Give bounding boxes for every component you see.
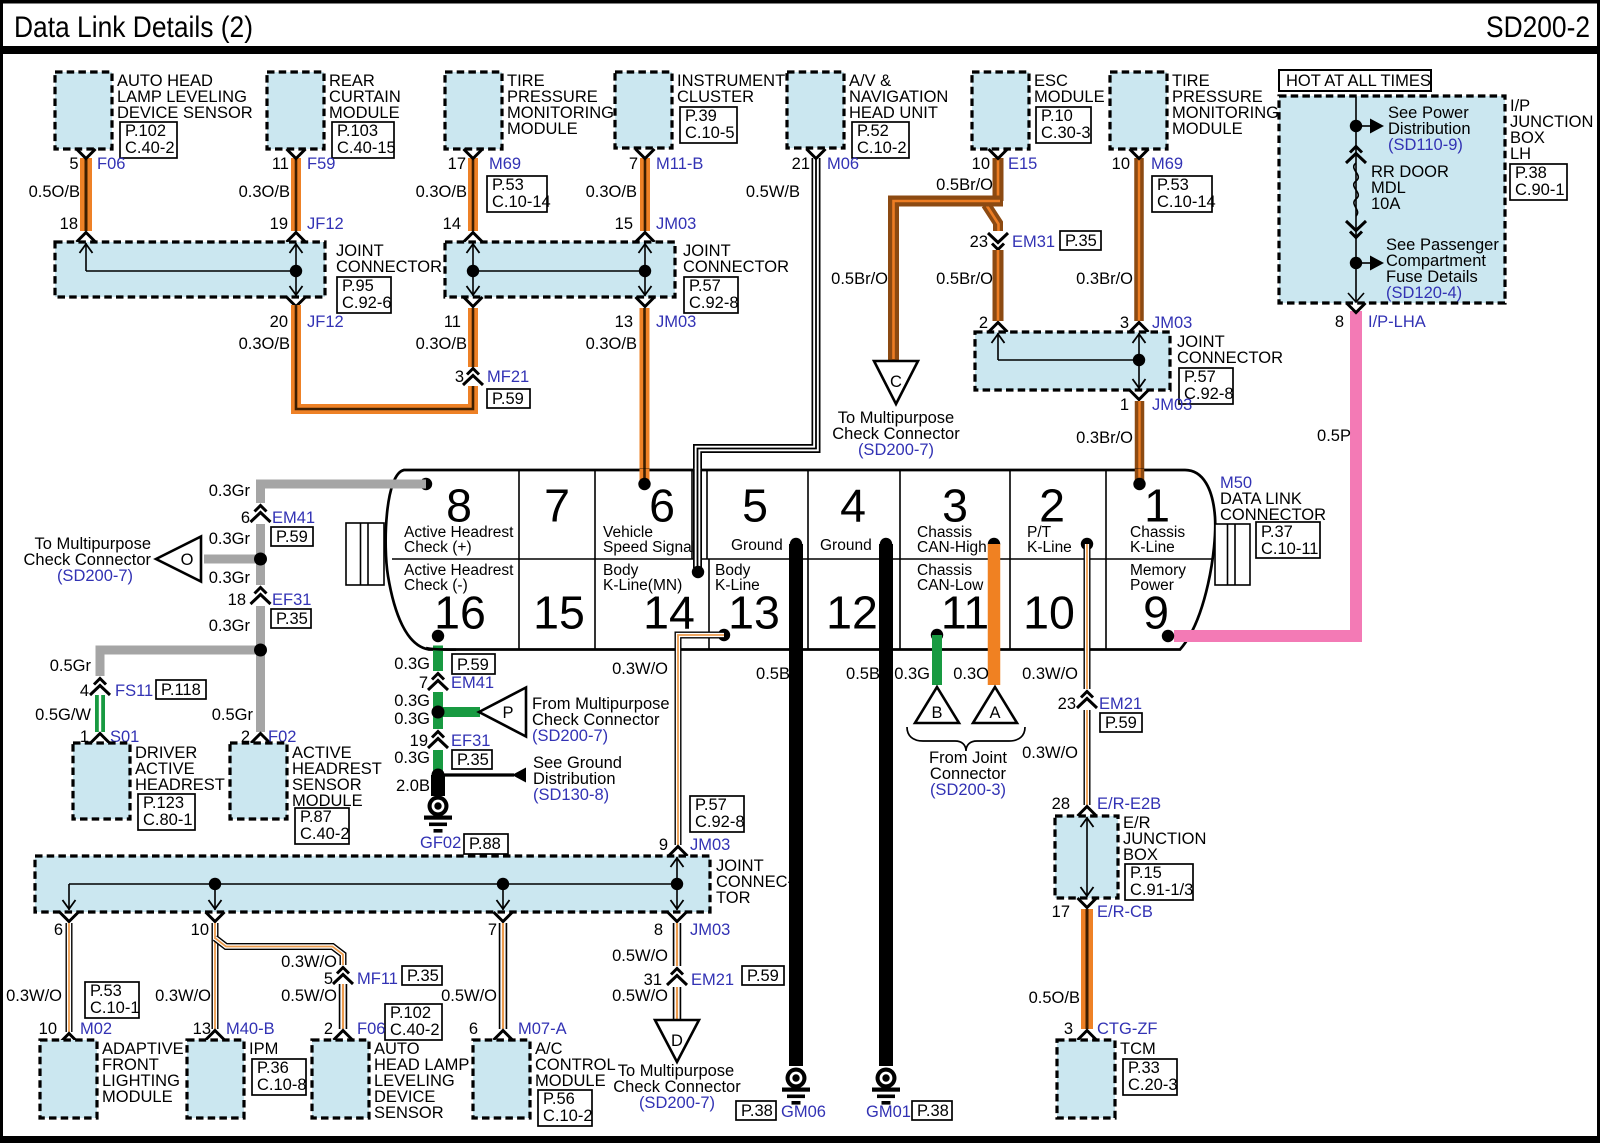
svg-text:0.3G: 0.3G (394, 655, 430, 673)
svg-text:HEADREST: HEADREST (135, 776, 225, 794)
svg-text:0.5Gr: 0.5Gr (212, 706, 254, 724)
svg-text:EM31: EM31 (1012, 233, 1055, 251)
wire 0.5O/B from F06 pin 5 to JF12 pin 18 (29, 149, 126, 242)
inline connector MF11 pin 5 (P.35) (324, 965, 442, 988)
svg-text:9: 9 (659, 836, 668, 854)
svg-text:I/P-LHA: I/P-LHA (1368, 313, 1426, 331)
DLC pin 15 cell (533, 587, 585, 639)
module: tire pressure monitoring module 2 (1110, 72, 1279, 149)
svg-text:7: 7 (544, 480, 570, 532)
svg-text:Ground: Ground (820, 537, 872, 554)
svg-text:C.80-1: C.80-1 (143, 811, 193, 829)
svg-text:EM21: EM21 (1099, 695, 1142, 713)
svg-text:P.102: P.102 (390, 1004, 431, 1022)
svg-text:13: 13 (615, 313, 633, 331)
svg-text:A: A (989, 704, 1000, 722)
svg-text:2: 2 (324, 1020, 333, 1038)
see ground distribution reference arrow (432, 754, 622, 804)
svg-text:0.5Gr: 0.5Gr (50, 657, 92, 675)
svg-text:F59: F59 (307, 155, 335, 173)
hot at all times header (1279, 70, 1431, 91)
inline connector EM21 pin 31 (P.59) (644, 966, 784, 989)
wire 0.3O/B from JF12 pin 20 via corner to MF21 pin 3 (239, 297, 473, 409)
wire 0.3W/O branch to MF11 pin 5 (215, 938, 343, 971)
svg-text:0.3W/O: 0.3W/O (1022, 744, 1078, 762)
svg-text:17: 17 (448, 155, 466, 173)
svg-text:M69: M69 (1151, 155, 1183, 173)
svg-text:5: 5 (742, 480, 768, 532)
wire 0.3W/O from DLC pin 13 to JM03 pin 9 (612, 635, 744, 856)
wire 0.5W/O from JM03 pin 8 to triangle D (612, 912, 730, 1019)
I/P junction box LH (1279, 96, 1593, 303)
svg-text:MODULE: MODULE (1034, 88, 1105, 106)
svg-text:P.95: P.95 (342, 277, 374, 295)
svg-text:12: 12 (826, 587, 878, 639)
svg-text:19: 19 (410, 732, 428, 750)
svg-text:(SD200-7): (SD200-7) (639, 1094, 715, 1112)
svg-text:SD200-2: SD200-2 (1486, 11, 1590, 44)
wire 0.3O from DLC pin 3 to triangle A (953, 544, 994, 685)
svg-text:M40-B: M40-B (226, 1020, 275, 1038)
inline connector MF21 pin 3 (P.59) (455, 366, 530, 408)
joint connector JM03 (P.57 C.92-8) upper (445, 242, 789, 313)
svg-text:0.5W/O: 0.5W/O (612, 987, 668, 1005)
page frame left border (0, 0, 3, 1143)
svg-text:P.123: P.123 (143, 794, 184, 812)
wire 0.3Br/O from JM03 pin 1 to DLC pin 1 (1076, 390, 1192, 482)
svg-text:0.5W/O: 0.5W/O (441, 987, 497, 1005)
svg-text:0.3G: 0.3G (394, 749, 430, 767)
svg-text:JM03: JM03 (690, 836, 730, 854)
svg-text:M02: M02 (80, 1020, 112, 1038)
svg-text:FS11: FS11 (115, 682, 153, 700)
E/R junction box exit pin 17 E/R-CB (1052, 898, 1153, 921)
DLC pin 12 cell (826, 587, 878, 639)
svg-text:0.3O/B: 0.3O/B (239, 335, 290, 353)
M50 data link connector label (1220, 474, 1326, 558)
svg-text:C.10-5: C.10-5 (685, 124, 735, 142)
svg-text:14: 14 (643, 587, 695, 639)
svg-text:P.88: P.88 (469, 835, 501, 853)
svg-text:20: 20 (270, 313, 288, 331)
svg-text:M11-B: M11-B (656, 155, 703, 173)
svg-text:(SD200-7): (SD200-7) (57, 567, 133, 585)
wire 0.3W/O from JM03 pin 10 to M40-B pin 13 with branch (155, 912, 275, 1040)
svg-text:C: C (890, 373, 902, 391)
svg-text:0.3Gr: 0.3Gr (209, 617, 251, 635)
module: adaptive front lighting module (40, 1040, 184, 1118)
svg-text:18: 18 (228, 591, 246, 609)
svg-text:0.5O/B: 0.5O/B (1029, 989, 1080, 1007)
svg-text:14: 14 (443, 215, 461, 233)
wire 0.5P from I/P-LHA pin 8 to DLC pin 9 (1176, 303, 1426, 636)
title divider rule (0, 46, 1600, 54)
svg-text:Ground: Ground (731, 537, 783, 554)
inline connector EF31 pin 19 (394, 729, 492, 769)
svg-text:JM03: JM03 (1152, 314, 1192, 332)
wire 0.3O/B from F59 pin 11 to JF12 pin 19 (239, 149, 344, 242)
svg-text:P.56: P.56 (543, 1090, 575, 1108)
off-page triangle B from joint connector (915, 687, 959, 723)
svg-text:C.40-2: C.40-2 (125, 139, 175, 157)
off-page triangle P from multipurpose check connector (394, 688, 669, 746)
svg-text:P.59: P.59 (747, 967, 779, 985)
module: rear curtain module (267, 72, 401, 158)
svg-text:0.3G: 0.3G (894, 665, 930, 683)
svg-text:M06: M06 (827, 155, 859, 173)
data link connector M50 body (386, 470, 1216, 650)
svg-text:CAN-Low: CAN-Low (917, 577, 984, 594)
svg-text:Data Link Details (2): Data Link Details (2) (14, 11, 253, 44)
svg-text:EF31: EF31 (451, 732, 490, 750)
DLC pin 3 cell (917, 480, 1000, 557)
wire 0.3O/B from M69 pin 17 to JM03 pin 14 (416, 149, 551, 242)
svg-text:0.5P: 0.5P (1317, 427, 1351, 445)
page frame right border (1597, 0, 1600, 1143)
DLC pin 7 cell (544, 480, 570, 532)
svg-text:EM21: EM21 (691, 971, 734, 989)
svg-text:JM03: JM03 (656, 215, 696, 233)
svg-text:CONNECTOR: CONNECTOR (336, 258, 442, 276)
svg-text:10A: 10A (1371, 195, 1400, 213)
svg-text:10: 10 (39, 1020, 57, 1038)
svg-text:P.57: P.57 (695, 796, 727, 814)
svg-text:CLUSTER: CLUSTER (677, 88, 754, 106)
module: auto head lamp leveling device sensor (55, 72, 253, 158)
svg-text:D: D (671, 1032, 683, 1050)
svg-text:0.5Br/O: 0.5Br/O (831, 270, 888, 288)
svg-text:0.3G: 0.3G (394, 710, 430, 728)
svg-text:P.57: P.57 (689, 277, 721, 295)
svg-text:JM03: JM03 (690, 921, 730, 939)
svg-text:DEVICE SENSOR: DEVICE SENSOR (117, 104, 253, 122)
svg-text:11: 11 (444, 313, 461, 331)
svg-text:3: 3 (1064, 1020, 1073, 1038)
svg-text:Power: Power (1130, 577, 1174, 594)
junction dot + see passenger compartment fuse details arrow (1350, 236, 1500, 302)
module: A/V & navigation head unit (787, 72, 948, 158)
off-page triangle D to multipurpose check connector (613, 1020, 741, 1112)
wire 0.5Gr from junction to F02 pin 2 (212, 706, 297, 746)
svg-text:0.3O/B: 0.3O/B (586, 335, 637, 353)
svg-text:7: 7 (629, 155, 638, 173)
wire 0.3Br/O from M69 pin 10 to JM03 pin 3 (1076, 149, 1216, 332)
svg-text:P.103: P.103 (337, 122, 378, 140)
svg-text:7: 7 (419, 674, 428, 692)
svg-text:C.92-8: C.92-8 (689, 294, 739, 312)
off-page triangle C to multipurpose check connector (832, 361, 960, 459)
svg-text:P.38: P.38 (1515, 164, 1547, 182)
wire 0.5B from DLC pin 5 to ground GM06 (756, 544, 796, 1066)
svg-text:0.5Br/O: 0.5Br/O (936, 270, 993, 288)
svg-text:2.0B: 2.0B (396, 777, 430, 795)
svg-text:0.3G: 0.3G (394, 692, 430, 710)
svg-text:0.5B: 0.5B (846, 665, 880, 683)
inline connector EM21 pin 23 (P.59) (1058, 689, 1142, 732)
wire 0.3G from DLC pin 11 to triangle B (894, 635, 937, 685)
wire stub 0.5W/B into DLC pin 14 (692, 468, 704, 578)
svg-text:MODULE: MODULE (102, 1088, 173, 1106)
svg-text:28: 28 (1052, 795, 1070, 813)
svg-text:0.3O/B: 0.3O/B (416, 183, 467, 201)
svg-text:P.59: P.59 (492, 390, 524, 408)
module: TCM (1057, 1040, 1178, 1118)
wire 0.3Gr from DLC pin 8 down left chain (209, 482, 426, 732)
svg-text:C.92-8: C.92-8 (695, 813, 745, 831)
svg-text:(SD200-7): (SD200-7) (532, 727, 608, 745)
svg-text:P.10: P.10 (1041, 107, 1073, 125)
svg-text:0.3W/O: 0.3W/O (1022, 665, 1078, 683)
svg-text:MODULE: MODULE (535, 1072, 606, 1090)
svg-text:5: 5 (324, 970, 333, 988)
svg-text:0.5W/B: 0.5W/B (746, 183, 800, 201)
svg-text:6: 6 (241, 509, 250, 527)
svg-text:0.5B: 0.5B (756, 665, 790, 683)
svg-text:LH: LH (1510, 145, 1531, 163)
svg-text:0.3W/O: 0.3W/O (155, 987, 211, 1005)
wire 0.3O/B from JM03 pin 13 down to DLC pin 6 (586, 297, 697, 482)
svg-text:HEAD UNIT: HEAD UNIT (849, 104, 938, 122)
svg-text:P.52: P.52 (857, 122, 889, 140)
svg-text:Check (+): Check (+) (404, 539, 472, 556)
module: instrument cluster (615, 72, 785, 148)
svg-text:18: 18 (60, 215, 78, 233)
svg-text:CONNECTOR: CONNECTOR (683, 258, 789, 276)
svg-text:K-Line: K-Line (1130, 539, 1175, 556)
wire 0.3G from DLC pin 16 down (394, 646, 495, 776)
svg-text:B: B (931, 704, 942, 722)
svg-text:0.3O/B: 0.3O/B (416, 335, 467, 353)
svg-text:MF21: MF21 (487, 368, 529, 386)
svg-text:MF11: MF11 (357, 970, 398, 988)
svg-text:0.3W/O: 0.3W/O (281, 953, 337, 971)
svg-text:P.35: P.35 (276, 610, 308, 628)
svg-text:0.3O/B: 0.3O/B (586, 183, 637, 201)
svg-text:0.5W/O: 0.5W/O (612, 947, 668, 965)
svg-text:0.5W/O: 0.5W/O (281, 987, 337, 1005)
svg-text:11: 11 (941, 587, 989, 639)
joint connector JM03 (P.57 C.92-8) right (975, 332, 1283, 404)
svg-text:P.57: P.57 (1184, 368, 1216, 386)
svg-text:(SD130-8): (SD130-8) (533, 786, 609, 804)
DLC pin 16 cell (404, 562, 514, 642)
wire 0.3W/O from DLC pin 2 to E/R junction box (1022, 544, 1087, 805)
svg-text:C.90-1: C.90-1 (1515, 181, 1565, 199)
wire 0.5W/B from M06 pin 21 to DLC pin 14 (698, 149, 860, 570)
svg-text:CTG-ZF: CTG-ZF (1097, 1020, 1157, 1038)
svg-text:GM06: GM06 (781, 1103, 826, 1121)
svg-text:JM03: JM03 (656, 313, 696, 331)
junction dot + see power distribution arrow (1350, 104, 1471, 154)
svg-text:EF31: EF31 (272, 591, 311, 609)
svg-text:Check (-): Check (-) (404, 577, 468, 594)
svg-text:P.59: P.59 (457, 656, 489, 674)
svg-text:0.5O/B: 0.5O/B (29, 183, 80, 201)
wire 0.5G/W from FS11 to S01 pin 1 (35, 695, 139, 746)
svg-text:16: 16 (434, 587, 486, 639)
svg-text:0.3Gr: 0.3Gr (209, 569, 251, 587)
svg-text:C.40-15: C.40-15 (337, 139, 396, 157)
module: A/C control module (473, 1040, 616, 1126)
svg-text:0.3W/O: 0.3W/O (612, 660, 668, 678)
svg-text:(SD120-4): (SD120-4) (1386, 284, 1462, 302)
svg-text:GF02: GF02 (420, 834, 461, 852)
svg-text:C.30-3: C.30-3 (1041, 124, 1091, 142)
svg-text:8: 8 (1335, 313, 1344, 331)
svg-text:P.39: P.39 (685, 107, 717, 125)
wire 0.5W/O from MF11 to F06 pin 2 (281, 984, 442, 1040)
ground GF02 (P.88) (420, 796, 508, 855)
module: driver active headrest (73, 743, 225, 830)
svg-text:0.3Gr: 0.3Gr (209, 530, 251, 548)
wire 0.3W/O from JM03 pin 6 to M02 pin 10 (6, 912, 139, 1043)
wire 0.5B from DLC pin 4 to ground GM01 (846, 544, 886, 1066)
svg-text:IPM: IPM (249, 1040, 278, 1058)
svg-text:C.92-6: C.92-6 (342, 294, 392, 312)
svg-text:SENSOR: SENSOR (374, 1104, 444, 1122)
svg-text:F06: F06 (97, 155, 125, 173)
svg-text:17: 17 (1052, 903, 1070, 921)
svg-text:3: 3 (1120, 314, 1129, 332)
svg-text:K-Line: K-Line (1027, 539, 1072, 556)
svg-text:JF12: JF12 (307, 313, 344, 331)
svg-text:M07-A: M07-A (518, 1020, 567, 1038)
svg-text:(SD200-7): (SD200-7) (858, 441, 934, 459)
svg-text:MODULE: MODULE (1172, 120, 1243, 138)
svg-text:C.40-2: C.40-2 (300, 825, 350, 843)
svg-text:13: 13 (193, 1020, 211, 1038)
wire 0.3O/B from JM03 pin 11 down to MF21 (416, 297, 483, 367)
svg-text:P.35: P.35 (457, 751, 489, 769)
page frame top bar (0, 0, 1600, 4)
svg-text:P.33: P.33 (1128, 1059, 1160, 1077)
svg-text:P.59: P.59 (1105, 714, 1137, 732)
svg-text:8: 8 (654, 921, 663, 939)
svg-text:11: 11 (272, 155, 289, 173)
svg-text:F06: F06 (357, 1020, 385, 1038)
svg-text:0.3Gr: 0.3Gr (209, 482, 251, 500)
wire 0.5W/O from JM03 pin 7 to M07-A pin 6 (441, 912, 567, 1040)
joint connector JF12 (P.95) (55, 242, 442, 313)
svg-text:P.53: P.53 (90, 982, 122, 1000)
svg-text:23: 23 (1058, 695, 1076, 713)
svg-text:23: 23 (970, 233, 988, 251)
DLC pin 5 cell (731, 480, 802, 555)
DLC left keying tab (346, 523, 384, 585)
svg-text:P.53: P.53 (492, 176, 524, 194)
svg-text:O: O (181, 551, 194, 569)
svg-text:P: P (502, 704, 513, 722)
module: active headrest sensor module (230, 743, 382, 844)
svg-text:4: 4 (80, 682, 89, 700)
svg-text:31: 31 (644, 971, 662, 989)
svg-text:21: 21 (792, 155, 810, 173)
svg-text:C.10-11: C.10-11 (1261, 540, 1318, 558)
svg-text:BOX: BOX (1123, 846, 1158, 864)
svg-text:C.10-8: C.10-8 (257, 1076, 307, 1094)
svg-text:C.10-14: C.10-14 (1157, 193, 1216, 211)
gray junction to FS11 branch (50, 644, 267, 678)
joint connector JM03 lower (big) (35, 856, 793, 912)
svg-text:EM41: EM41 (272, 509, 315, 527)
module: auto head lamp leveling device sensor (lower) (312, 1040, 469, 1122)
svg-text:4: 4 (840, 480, 866, 532)
svg-text:19: 19 (270, 215, 288, 233)
svg-text:6: 6 (469, 1020, 478, 1038)
svg-text:HOT AT ALL TIMES: HOT AT ALL TIMES (1286, 72, 1431, 90)
module: IPM (187, 1040, 307, 1118)
module: ESC module (972, 72, 1105, 149)
down arrowhead at I/P box exit (1348, 293, 1364, 302)
svg-text:M69: M69 (489, 155, 521, 173)
svg-text:JM03: JM03 (1152, 396, 1192, 414)
svg-text:JF12: JF12 (307, 215, 344, 233)
svg-text:1: 1 (1120, 396, 1129, 414)
DLC pin 6 cell (603, 480, 695, 557)
svg-text:0.3W/O: 0.3W/O (6, 987, 62, 1005)
svg-text:0.3O: 0.3O (953, 665, 989, 683)
wire 0.5Br/O from E15 pin 10 down to EM31 (936, 149, 1037, 233)
E/R junction box (P.15) (1055, 814, 1206, 900)
svg-text:P.36: P.36 (257, 1059, 289, 1077)
inline connector EF31 pin 18 (P.35) (209, 585, 312, 635)
module: tire pressure monitoring module 1 (445, 72, 614, 149)
wire stub 0.3Br/O into DLC pin 1 (1133, 469, 1145, 490)
ground GM01 (P.38) (866, 1068, 952, 1122)
svg-text:C.91-1/3: C.91-1/3 (1130, 881, 1193, 899)
svg-text:P.59: P.59 (276, 528, 308, 546)
inline connector EM31 pin 23 (P.35) (970, 231, 1101, 251)
wire 0.5Br/O branch to triangle C (831, 201, 1003, 360)
svg-text:5: 5 (69, 155, 78, 173)
svg-text:C.10-2: C.10-2 (543, 1107, 593, 1125)
brace from joint connector note (907, 727, 1025, 799)
svg-text:P.87: P.87 (300, 808, 332, 826)
svg-text:C.10-1: C.10-1 (90, 999, 140, 1017)
svg-text:0.5Br/O: 0.5Br/O (936, 176, 993, 194)
svg-text:P.15: P.15 (1130, 864, 1162, 882)
wire 2.0B to ground GF02 (396, 775, 438, 796)
svg-text:C.10-14: C.10-14 (492, 193, 551, 211)
svg-text:MODULE: MODULE (329, 104, 400, 122)
off-page triangle O to multipurpose check connector (24, 535, 267, 587)
svg-text:CONNECTOR: CONNECTOR (1177, 349, 1283, 367)
wire stub 0.5P from DLC pin 9 (1162, 630, 1357, 642)
svg-text:9: 9 (1143, 587, 1169, 639)
svg-text:10: 10 (1023, 587, 1075, 639)
DLC right keying tab (1215, 524, 1250, 585)
svg-text:2: 2 (979, 314, 988, 332)
svg-text:P.35: P.35 (1065, 232, 1097, 250)
svg-text:C.40-2: C.40-2 (390, 1021, 440, 1039)
wire 0.5O/B from E/R-CB to CTG-ZF pin 3 (1029, 909, 1158, 1040)
wire stub 0.3O/B into DLC pin 6 (638, 469, 650, 490)
page frame bottom bar (0, 1136, 1600, 1143)
DLC pin 4 cell (820, 480, 892, 555)
inline connector EM41 pin 7 (394, 671, 494, 710)
svg-text:10: 10 (191, 921, 209, 939)
inline connector EM41 pin 6 (P.59) (209, 503, 315, 548)
svg-text:(SD200-3): (SD200-3) (930, 781, 1006, 799)
svg-text:P.35: P.35 (407, 967, 439, 985)
svg-text:15: 15 (615, 215, 633, 233)
svg-text:0.3O/B: 0.3O/B (239, 183, 290, 201)
svg-text:Speed Signal: Speed Signal (603, 539, 695, 556)
E/R junction box entry pin 28 E/R-E2B (1052, 795, 1162, 816)
svg-text:13: 13 (728, 587, 780, 639)
DLC pin 8 cell (404, 478, 514, 556)
svg-text:TOR: TOR (716, 889, 751, 907)
